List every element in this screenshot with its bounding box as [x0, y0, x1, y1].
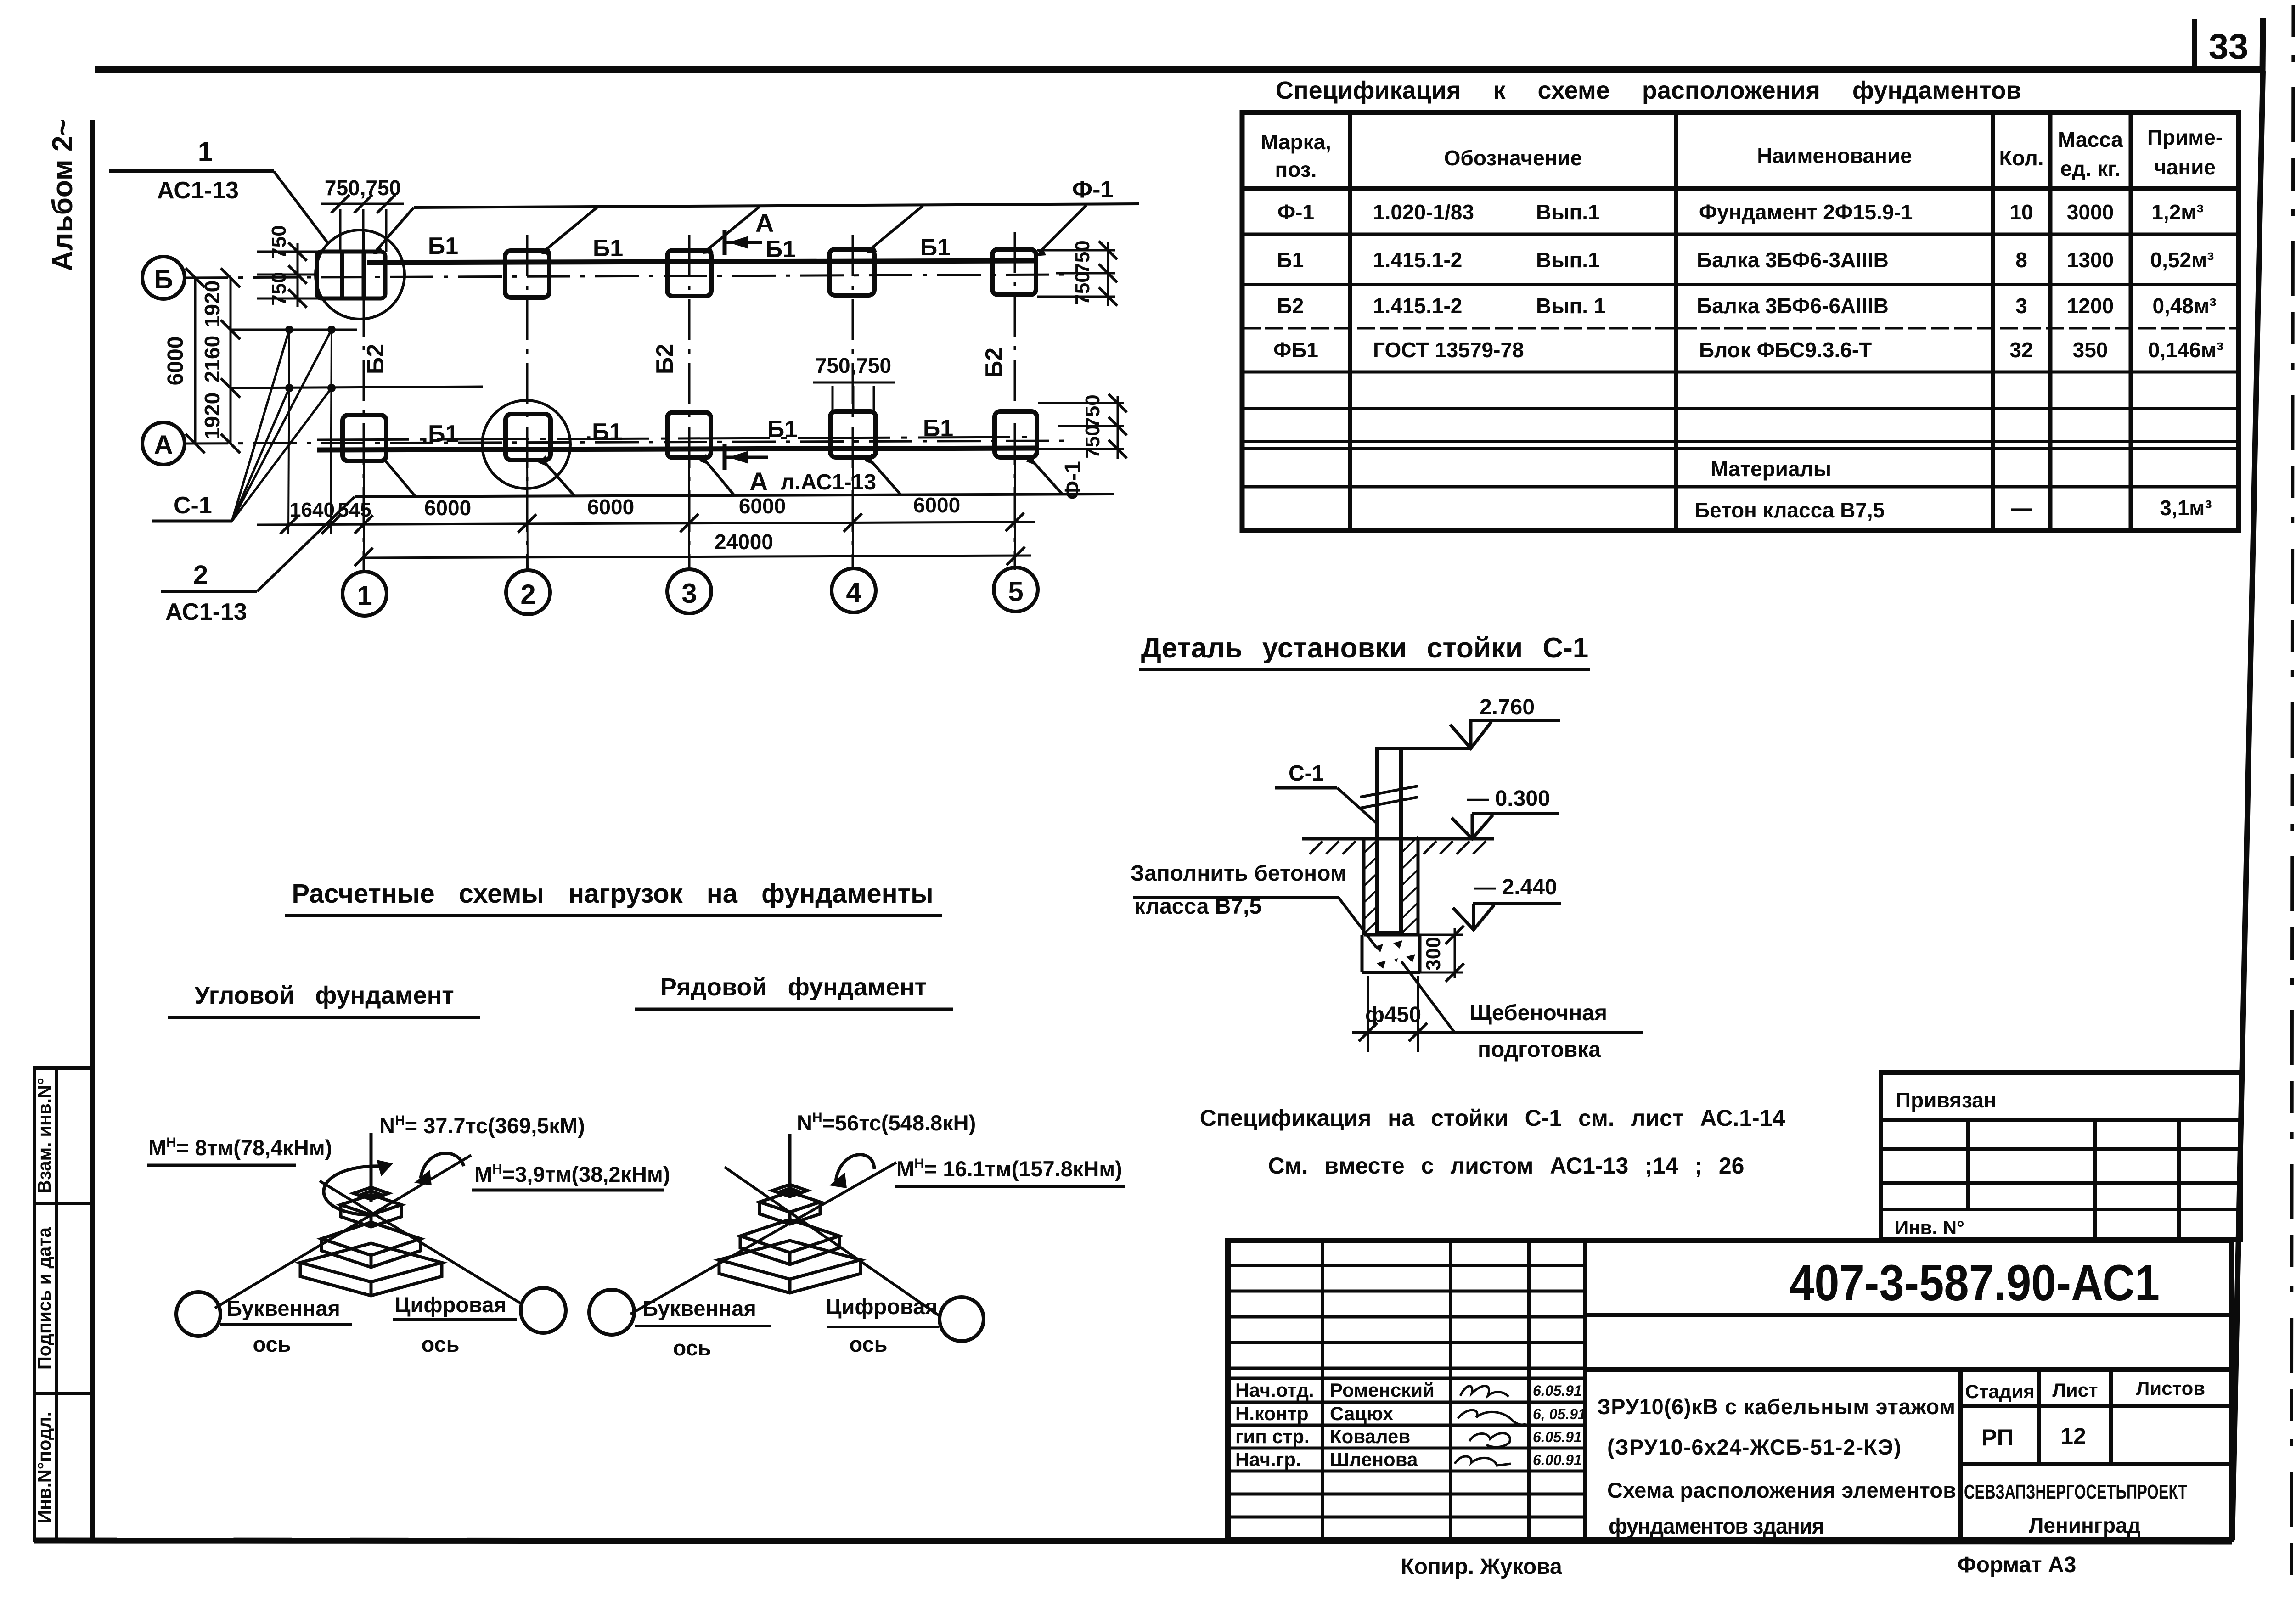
- svg-text:МН= 8тм(78,4кНм): МН= 8тм(78,4кНм): [148, 1135, 332, 1160]
- svg-text:Схема расположения элементов: Схема расположения элементов: [1607, 1478, 1956, 1502]
- svg-text:Н.контр: Н.контр: [1235, 1403, 1309, 1424]
- axis circle digit (left pyr): [521, 1288, 566, 1333]
- svg-text:Вып.1: Вып.1: [1536, 248, 1600, 272]
- digit axis line (left pyr): [320, 1181, 522, 1304]
- svg-text:— 0.300: — 0.300: [1467, 786, 1550, 811]
- axis circle letter (left pyr): [176, 1292, 220, 1336]
- label цифровая ось (right pyr): [826, 1294, 939, 1356]
- stage grid vertical: [1958, 1370, 1963, 1539]
- svg-text:Ф-1: Ф-1: [1277, 200, 1314, 224]
- svg-text:407-3-587.90-АС1: 407-3-587.90-АС1: [1790, 1255, 2160, 1311]
- elevation mark -0.300: [1452, 786, 1559, 839]
- elevation mark 2.760: [1403, 695, 1560, 748]
- svg-text:4: 4: [846, 577, 861, 608]
- svg-text:1.020-1/83: 1.020-1/83: [1373, 200, 1474, 224]
- svg-text:1.415.1-2: 1.415.1-2: [1373, 248, 1462, 272]
- svg-text:Цифровая: Цифровая: [826, 1294, 938, 1319]
- leader to А-2: [542, 459, 575, 496]
- svg-text:1,2м³: 1,2м³: [2151, 200, 2203, 224]
- svg-text:Б1: Б1: [920, 234, 951, 261]
- svg-text:Ковалев: Ковалев: [1330, 1426, 1410, 1447]
- svg-text:3,1м³: 3,1м³: [2160, 496, 2212, 520]
- column axis line 1: [363, 232, 365, 570]
- svg-text:ЗРУ10(6)кВ с кабельным этажом: ЗРУ10(6)кВ с кабельным этажом: [1597, 1394, 1955, 1419]
- svg-text:ось: ось: [421, 1332, 459, 1356]
- dim ф450: [1352, 976, 1643, 1052]
- svg-text:Приме-: Приме-: [2147, 125, 2223, 149]
- svg-text:Обозначение: Обозначение: [1444, 146, 1582, 170]
- svg-text:л.АС1-13: л.АС1-13: [781, 470, 876, 494]
- svg-text:Альбом 2~: Альбом 2~: [47, 119, 79, 271]
- column axis line 4: [852, 235, 854, 570]
- svg-text:Масса: Масса: [2058, 128, 2123, 152]
- svg-text:6000: 6000: [163, 337, 188, 386]
- svg-text:300: 300: [1422, 937, 1445, 970]
- leader to А-3: [703, 457, 735, 496]
- leader Ф-1 to Б-2: [545, 207, 597, 251]
- gravel dots: [1374, 940, 1415, 969]
- svg-text:3: 3: [2015, 294, 2027, 318]
- svg-text:750: 750: [268, 272, 290, 305]
- foundation Б-2: [505, 251, 549, 298]
- svg-text:32: 32: [2009, 338, 2033, 362]
- svg-text:См. вместе с листом АС1-13: См. вместе с листом АС1-13 ;14 ; 26: [1268, 1153, 1745, 1179]
- label буквенная ось (right pyr): [635, 1296, 771, 1360]
- svg-text:чание: чание: [2154, 155, 2216, 179]
- svg-text:1300: 1300: [2067, 248, 2114, 272]
- label M=3,9тм: [472, 1162, 670, 1190]
- axis Б center line: [185, 275, 1070, 278]
- dim 750,750 above Б-1: [321, 176, 404, 252]
- axis А circle: [142, 422, 185, 465]
- svg-text:Угловой фундамент: Угловой фундамент: [194, 982, 454, 1009]
- svg-text:750: 750: [1071, 271, 1094, 305]
- svg-text:1: 1: [357, 580, 372, 611]
- svg-text:750: 750: [1071, 240, 1094, 274]
- svg-text:1200: 1200: [2067, 294, 2114, 318]
- post С-1: [1377, 748, 1401, 933]
- svg-text:Материалы: Материалы: [1711, 457, 1831, 481]
- foundation Б-4: [829, 249, 874, 295]
- stake node dots: [285, 326, 336, 392]
- svg-text:545: 545: [338, 499, 371, 521]
- axis Б circle: [142, 257, 185, 299]
- svg-text:2: 2: [193, 560, 208, 590]
- svg-text:Нач.гр.: Нач.гр.: [1235, 1449, 1301, 1470]
- svg-text:2.760: 2.760: [1480, 695, 1535, 719]
- svg-text:подготовка: подготовка: [1478, 1038, 1601, 1062]
- svg-text:Ленинград: Ленинград: [2029, 1513, 2141, 1537]
- scan edge artifact dashed line: [2291, 5, 2293, 1584]
- moment arc right of left pyr: [421, 1153, 464, 1178]
- leader Ф-1 to Б-5: [1039, 205, 1086, 253]
- table outer frame: [1242, 112, 2239, 530]
- svg-text:Цифровая: Цифровая: [394, 1292, 506, 1317]
- column axis line 5: [1014, 232, 1016, 570]
- svg-text:Спецификация на стойки С-1: Спецификация на стойки С-1 см. лист АС.1…: [1200, 1105, 1785, 1131]
- leader Ф-1 to Б-3: [707, 207, 760, 250]
- svg-text:А: А: [749, 467, 768, 496]
- sheet top border line: [95, 66, 2264, 73]
- svg-text:750: 750: [268, 225, 290, 258]
- grid circle 3: [667, 569, 711, 613]
- grid circle 1: [343, 572, 387, 616]
- svg-text:Блок ФБС9.3.6-Т: Блок ФБС9.3.6-Т: [1699, 338, 1872, 362]
- svg-text:3: 3: [681, 578, 697, 609]
- dim 750/750 right of А-5: [1038, 394, 1127, 459]
- svg-text:Ф-1: Ф-1: [1072, 176, 1114, 203]
- leader to А-1: [385, 460, 416, 497]
- svg-text:2160: 2160: [200, 336, 224, 382]
- svg-text:Б1: Б1: [767, 416, 798, 443]
- svg-text:Подпись и дата: Подпись и дата: [34, 1227, 55, 1370]
- svg-text:фундаментов здания: фундаментов здания: [1609, 1514, 1824, 1538]
- svg-text:поз.: поз.: [1275, 157, 1317, 181]
- label M= 8тм: [147, 1135, 332, 1165]
- svg-text:2: 2: [520, 579, 535, 610]
- svg-text:АС1-13: АС1-13: [157, 177, 239, 204]
- foundation А-3: [667, 412, 711, 458]
- leader to А-4: [868, 457, 901, 495]
- moment arc left: [324, 1166, 385, 1215]
- svg-text:Б1: Б1: [593, 235, 623, 262]
- callout 2 / АС1-13: [161, 497, 355, 625]
- section mark А top: [725, 208, 774, 255]
- svg-text:Инв.N°подл.: Инв.N°подл.: [34, 1411, 55, 1523]
- svg-text:Буквенная: Буквенная: [642, 1296, 756, 1320]
- left margin stamp strip: [34, 1068, 92, 1540]
- svg-text:Нач.отд.: Нач.отд.: [1235, 1379, 1314, 1401]
- label буквенная ось (left pyr): [220, 1296, 352, 1356]
- row А top beam line: [317, 437, 1038, 440]
- post break marks: [1360, 786, 1418, 797]
- svg-text:АС1-13: АС1-13: [165, 599, 247, 625]
- column axis line 2: [526, 235, 529, 570]
- svg-text:С-1: С-1: [1289, 761, 1324, 786]
- svg-text:Инв. N°: Инв. N°: [1895, 1217, 1964, 1238]
- foundation А-1: [343, 415, 386, 461]
- svg-text:.Б1: .Б1: [422, 421, 459, 447]
- callout Ф-1 top right: [373, 176, 1139, 254]
- svg-text:ось: ось: [673, 1336, 711, 1360]
- svg-text:Марка,: Марка,: [1261, 130, 1331, 154]
- svg-text:РП: РП: [1981, 1425, 2013, 1450]
- svg-text:Листов: Листов: [2136, 1377, 2205, 1399]
- svg-text:NН=56тс(548.8кН): NН=56тс(548.8кН): [797, 1110, 976, 1135]
- svg-text:1920: 1920: [200, 393, 224, 439]
- svg-text:Б2: Б2: [652, 344, 678, 374]
- svg-text:Деталь установки стойки С-1: Деталь установки стойки С-1: [1141, 632, 1589, 664]
- foundation Б-5: [992, 249, 1036, 295]
- svg-text:Наименование: Наименование: [1757, 144, 1912, 168]
- svg-text:8: 8: [2015, 248, 2027, 272]
- foundation А-5: [995, 411, 1037, 457]
- callout С-1: [152, 330, 332, 521]
- svg-text:Б1: Б1: [923, 415, 953, 442]
- svg-text:гип стр.: гип стр.: [1235, 1426, 1310, 1447]
- stake vertical line a: [288, 330, 289, 534]
- svg-text:6000: 6000: [913, 493, 960, 517]
- stake vertical line b: [331, 330, 332, 534]
- svg-text:10: 10: [2009, 200, 2033, 224]
- svg-text:СЕВЗАПЗНЕРГОСЕТЬПРОЕКТ: СЕВЗАПЗНЕРГОСЕТЬПРОЕКТ: [1964, 1481, 2187, 1503]
- pit wall hatch right: [1401, 837, 1418, 934]
- svg-text:0,146м³: 0,146м³: [2148, 338, 2223, 362]
- label цифровая ось (left pyr): [393, 1292, 517, 1356]
- svg-text:1: 1: [198, 137, 213, 167]
- svg-text:Балка 3БФ6-3АIIIВ: Балка 3БФ6-3АIIIВ: [1697, 248, 1889, 272]
- svg-text:—: —: [2011, 496, 2032, 520]
- svg-text:750,750: 750,750: [815, 354, 891, 377]
- dim 750,750 above А-4: [813, 354, 895, 414]
- svg-text:МН=3,9тм(38,2кНм): МН=3,9тм(38,2кНм): [474, 1162, 670, 1186]
- svg-text:Расчетные схемы нагрузок на: Расчетные схемы нагрузок на фундаменты: [292, 879, 933, 909]
- svg-text:6.00.91: 6.00.91: [1533, 1452, 1582, 1468]
- foundation А-2: [506, 414, 551, 460]
- dim 6000 left vertical: [163, 268, 205, 453]
- N force line (right pyr): [788, 1134, 792, 1197]
- svg-text:Б: Б: [154, 264, 173, 294]
- svg-text:Буквенная: Буквенная: [226, 1296, 340, 1320]
- bottom leader line (row А): [355, 494, 1114, 497]
- svg-text:ФБ1: ФБ1: [1273, 338, 1318, 362]
- svg-text:750: 750: [1081, 394, 1104, 428]
- svg-text:Б1: Б1: [428, 233, 458, 259]
- signature table verticals: [1321, 1241, 1324, 1539]
- corner foundation pyramid: [300, 1187, 442, 1296]
- axis circle digit (right pyr): [940, 1297, 984, 1341]
- grid circle 5: [994, 567, 1038, 612]
- svg-text:Вып.1: Вып.1: [1536, 200, 1600, 224]
- svg-text:1920: 1920: [200, 281, 224, 327]
- svg-text:6000: 6000: [424, 496, 471, 520]
- bottom dim chain line: [257, 493, 1035, 534]
- foundation А-4: [830, 411, 876, 457]
- svg-text:Рядовой фундамент: Рядовой фундамент: [660, 973, 927, 1001]
- svg-text:Б1: Б1: [1277, 248, 1304, 272]
- label заполнить бетоном класса В7,5: [1131, 861, 1376, 947]
- digit axis line (right pyr): [725, 1167, 940, 1316]
- axis А center line: [185, 441, 1070, 444]
- svg-text:Заполнить бетоном: Заполнить бетоном: [1131, 861, 1346, 886]
- callout 1 / АС1-13: [109, 137, 329, 244]
- foundation Б-3: [667, 250, 711, 296]
- svg-text:750,750: 750,750: [325, 176, 401, 200]
- svg-text:1.415.1-2: 1.415.1-2: [1373, 294, 1462, 318]
- svg-text:А: А: [755, 208, 774, 237]
- pit wall hatch left: [1364, 840, 1377, 934]
- grid circle 4: [832, 568, 876, 612]
- svg-text:6000: 6000: [587, 495, 634, 519]
- svg-text:С-1: С-1: [174, 492, 212, 519]
- svg-text:5: 5: [1008, 576, 1023, 607]
- svg-text:6.05.91: 6.05.91: [1533, 1429, 1582, 1445]
- svg-text:ось: ось: [253, 1332, 291, 1356]
- signature table row lines: [1228, 1265, 1585, 1517]
- svg-text:24000: 24000: [715, 530, 773, 554]
- dim 1920/2160/1920 vertical: [200, 268, 240, 453]
- header bottom line: [1242, 186, 2239, 191]
- foundation Б1-corner (2Ф15.9-1): [317, 252, 385, 298]
- svg-text:Щебеночная: Щебеночная: [1469, 1001, 1607, 1025]
- svg-text:Кол.: Кол.: [1999, 146, 2043, 170]
- svg-text:Ф-1: Ф-1: [1061, 461, 1085, 500]
- svg-text:ед. кг.: ед. кг.: [2060, 157, 2121, 180]
- svg-text:ГОСТ 13579-78: ГОСТ 13579-78: [1373, 338, 1524, 362]
- letter axis line (left): [215, 1155, 471, 1308]
- column extension lines to circles: [364, 461, 364, 572]
- dim 750/750 left of Б-1: [257, 225, 318, 308]
- svg-text:Фундамент 2Ф15.9-1: Фундамент 2Ф15.9-1: [1699, 200, 1913, 224]
- leader to А-5: [1030, 458, 1063, 494]
- page number box verticals: [2192, 19, 2197, 72]
- svg-text:Спецификация к схеме распол: Спецификация к схеме расположения фундам…: [1276, 77, 2021, 104]
- doc number cell bottom: [1585, 1313, 2232, 1317]
- svg-text:Сацюх: Сацюх: [1330, 1403, 1394, 1424]
- svg-text:А: А: [154, 430, 173, 460]
- grid circle 2: [506, 570, 550, 614]
- svg-text:.Б1: .Б1: [585, 419, 623, 445]
- sheet right border line (slightly skewed scan): [2232, 71, 2263, 1540]
- axis circle letter (right pyr): [589, 1290, 634, 1335]
- svg-text:1640: 1640: [290, 499, 335, 521]
- row foundation pyramid: [719, 1185, 861, 1293]
- svg-text:Формат А3: Формат А3: [1958, 1553, 2077, 1577]
- svg-text:Б1: Б1: [765, 236, 796, 263]
- svg-text:Роменский: Роменский: [1330, 1379, 1435, 1401]
- svg-text:Б2: Б2: [981, 348, 1007, 378]
- stake helper line y1920: [230, 329, 357, 331]
- svg-text:6.05.91: 6.05.91: [1533, 1382, 1582, 1399]
- svg-text:Привязан: Привязан: [1896, 1088, 1997, 1112]
- svg-text:NН= 37.7тс(369,5кМ): NН= 37.7тс(369,5кМ): [379, 1113, 585, 1138]
- ground line: [1302, 837, 1494, 841]
- sheet left border line: [90, 120, 95, 1540]
- svg-text:0,52м³: 0,52м³: [2150, 248, 2214, 272]
- svg-text:Стадия: Стадия: [1965, 1381, 2034, 1402]
- column axis line 3: [688, 235, 691, 570]
- svg-text:33: 33: [2209, 26, 2249, 67]
- gravel base: [1362, 935, 1420, 972]
- letter axis line (right pyr): [630, 1163, 896, 1314]
- svg-text:Бетон класса В7,5: Бетон класса В7,5: [1694, 498, 1885, 522]
- elevation mark -2.440: [1453, 875, 1561, 930]
- section mark А bottom: [725, 444, 876, 496]
- svg-text:Б2: Б2: [362, 344, 389, 374]
- svg-text:Копир. Жукова: Копир. Жукова: [1401, 1555, 1562, 1579]
- detail circle around А-2: [482, 400, 570, 489]
- sheet bottom border line: [34, 1540, 2232, 1541]
- svg-text:6, 05.91: 6, 05.91: [1533, 1406, 1586, 1422]
- moment arc (right pyr): [836, 1155, 874, 1181]
- row lines: [1242, 233, 2239, 236]
- dim 24000 line: [355, 530, 1031, 566]
- dim 750/750 right of Б-5: [1037, 240, 1117, 306]
- svg-text:6000: 6000: [739, 494, 786, 518]
- right area split line: [1585, 1367, 2232, 1372]
- svg-text:— 2.440: — 2.440: [1474, 875, 1557, 899]
- dim 300: [1418, 926, 1464, 982]
- svg-text:МН= 16.1тм(157.8кНм): МН= 16.1тм(157.8кНм): [896, 1156, 1122, 1181]
- svg-text:12: 12: [2060, 1423, 2086, 1449]
- concrete fill pit walls: [1364, 839, 1418, 935]
- svg-text:ф450: ф450: [1365, 1003, 1421, 1027]
- row Б beam line: [367, 261, 1036, 263]
- label щебеночная подготовка: [1401, 961, 1607, 1062]
- svg-text:Шленова: Шленова: [1330, 1449, 1418, 1470]
- svg-text:Б2: Б2: [1277, 294, 1304, 318]
- outer frame: [1228, 1241, 2232, 1539]
- stake helper line y2160: [230, 387, 483, 388]
- svg-text:3000: 3000: [2067, 200, 2114, 224]
- svg-text:Балка 3БФ6-6АIIIВ: Балка 3БФ6-6АIIIВ: [1697, 294, 1889, 318]
- N force line: [370, 1133, 373, 1202]
- svg-text:0,48м³: 0,48м³: [2153, 294, 2217, 318]
- svg-text:Лист: Лист: [2052, 1379, 2098, 1401]
- svg-text:350: 350: [2073, 338, 2108, 362]
- leader Ф-1 to Б-4: [870, 206, 923, 249]
- svg-text:750: 750: [1081, 425, 1104, 458]
- ground hatching: [1310, 841, 1486, 854]
- svg-text:Вып. 1: Вып. 1: [1536, 294, 1605, 318]
- column lines: [1348, 112, 1352, 530]
- label С-1: [1275, 761, 1378, 824]
- detail circle around Б-1: [315, 230, 405, 319]
- svg-text:(ЗРУ10-6х24-ЖСБ-51-2-КЭ): (ЗРУ10-6х24-ЖСБ-51-2-КЭ): [1607, 1435, 1901, 1459]
- svg-text:Взам. инв.N°: Взам. инв.N°: [34, 1078, 55, 1193]
- label M= 16.1тм: [895, 1156, 1125, 1186]
- svg-text:ось: ось: [849, 1332, 887, 1356]
- row А beam line: [317, 448, 1038, 450]
- signature squiggles: [1455, 1386, 1526, 1466]
